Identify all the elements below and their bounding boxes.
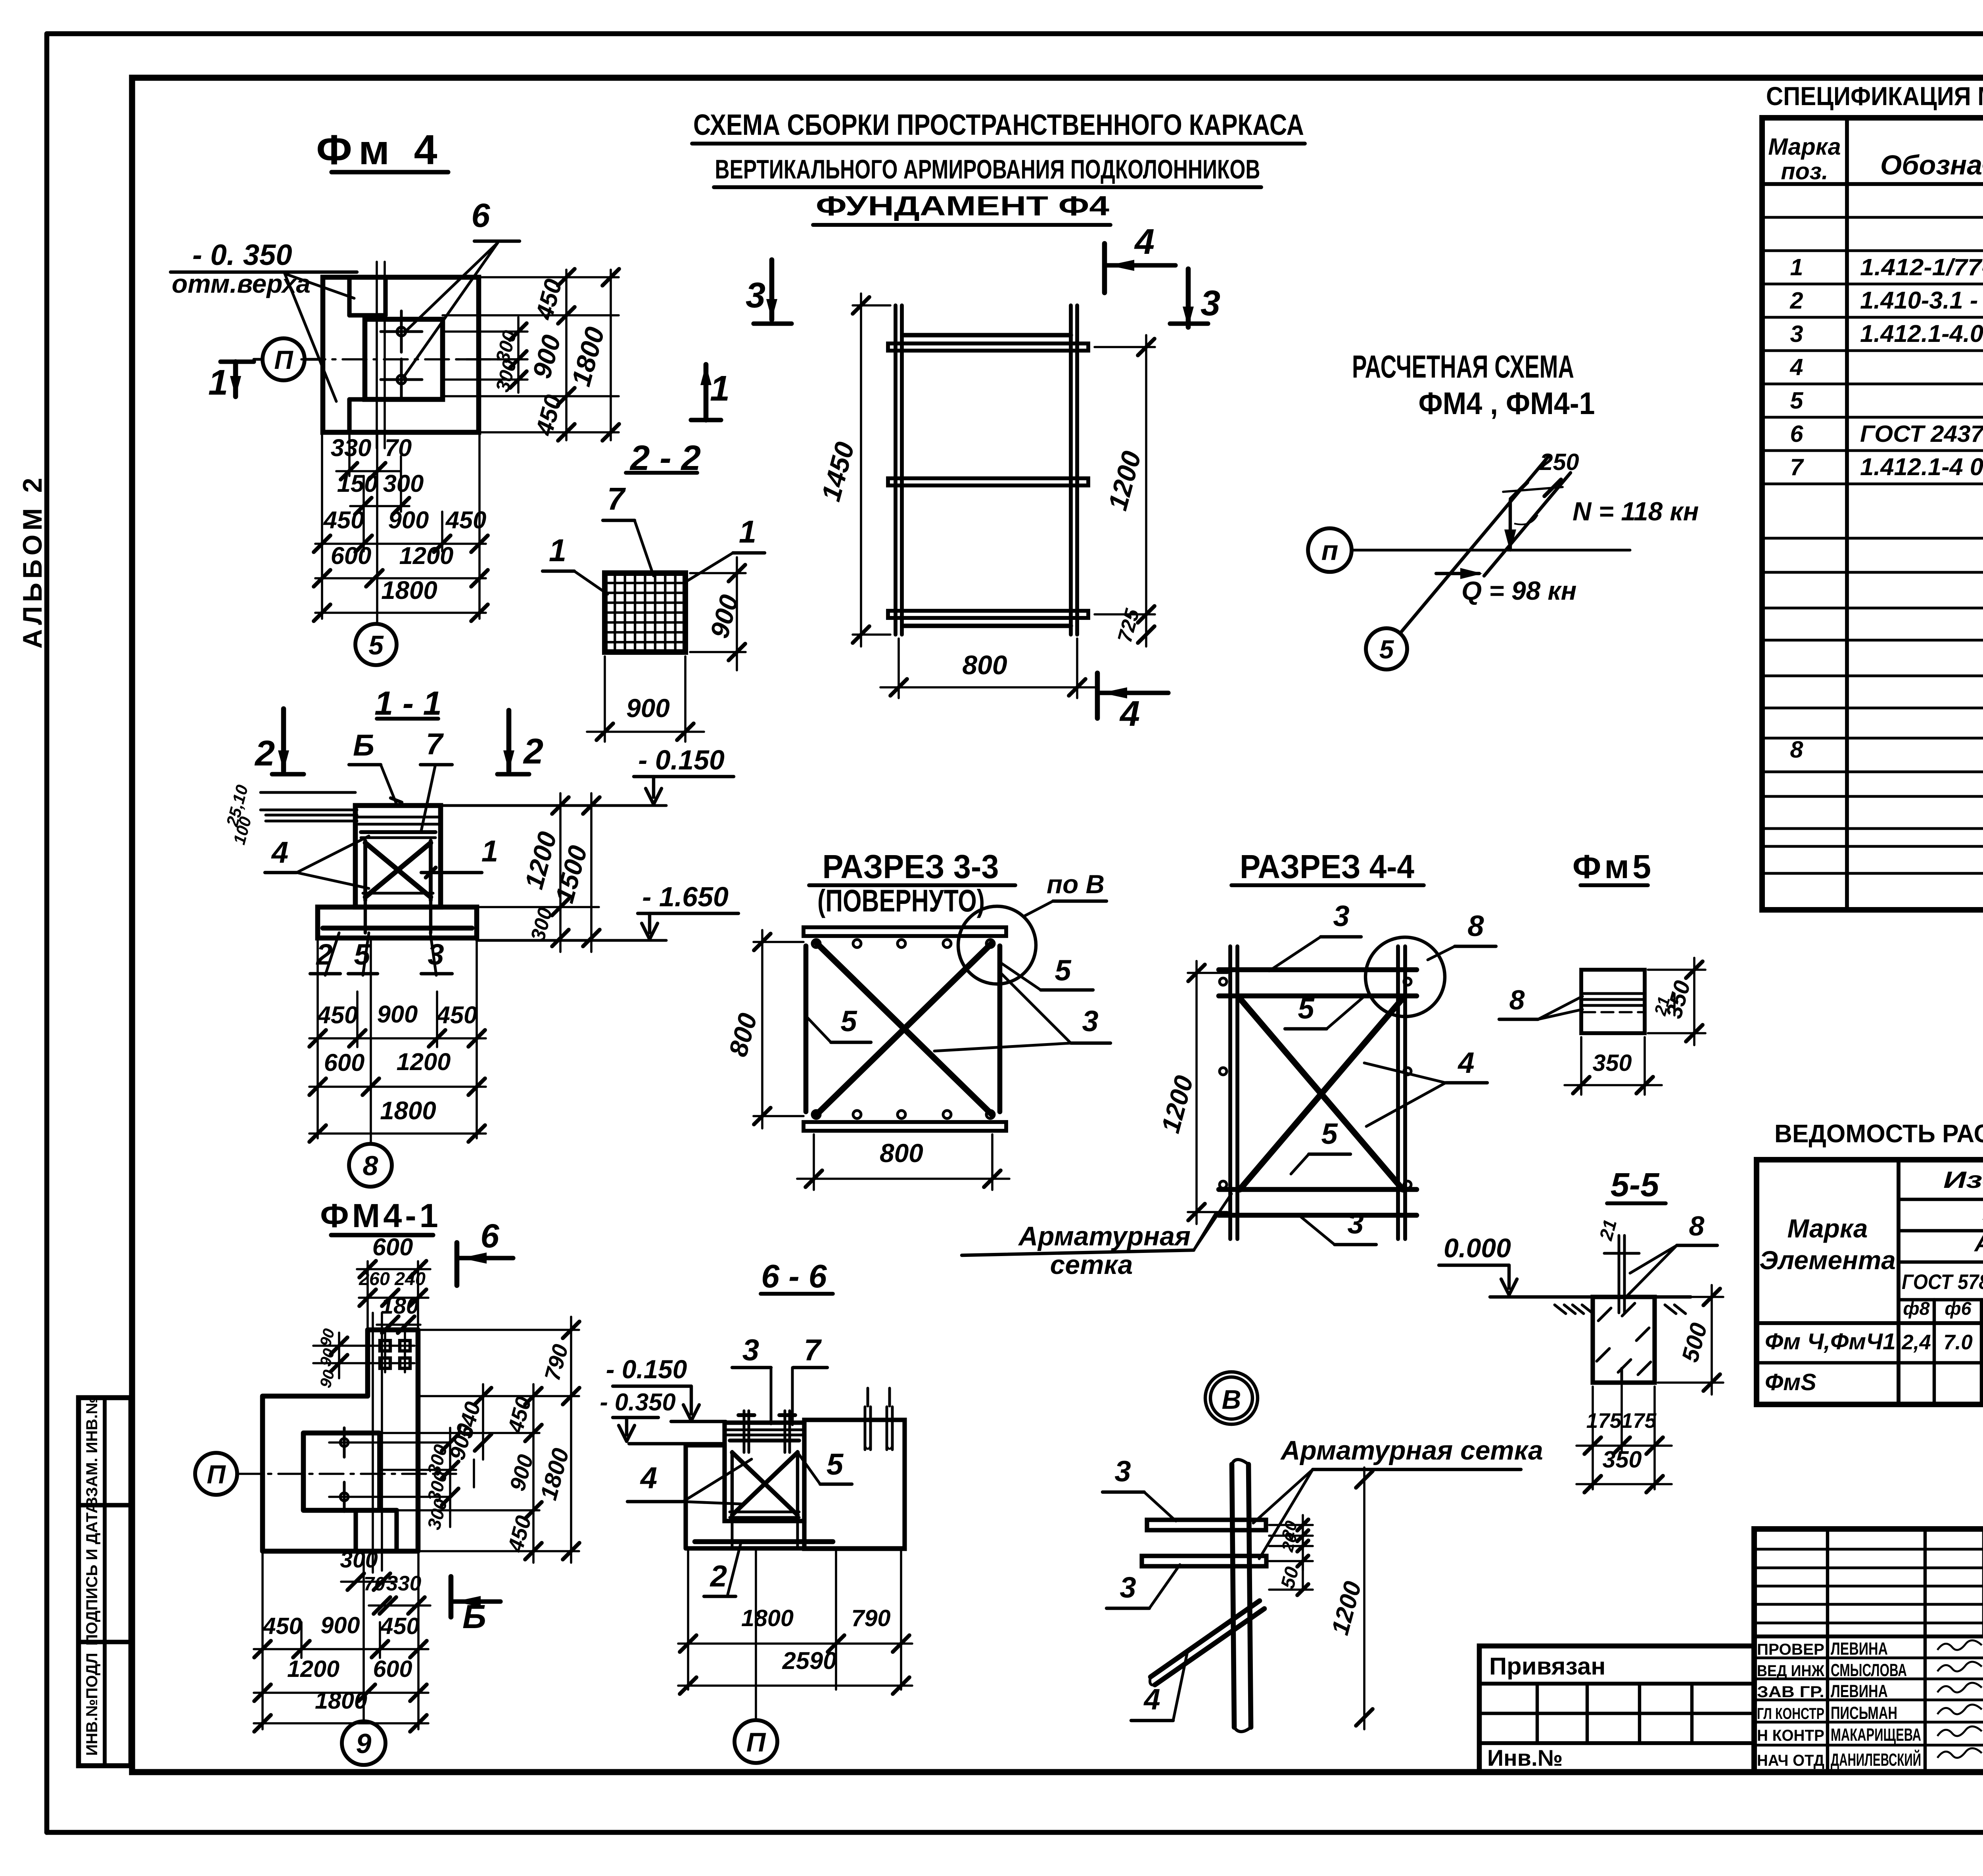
svg-text:РАЗРЕЗ 3-3: РАЗРЕЗ 3-3 (823, 848, 999, 885)
svg-text:П: П (746, 1728, 766, 1757)
FM4 dim chain 450-900-450 right (527, 269, 575, 441)
spec row 3 (1790, 316, 1983, 347)
svg-text:Марка: Марка (1768, 133, 1841, 160)
4-4 rungs (1219, 970, 1417, 1215)
svg-text:4: 4 (271, 836, 288, 869)
6-6 pedestal cross brace (730, 1452, 799, 1517)
design scheme title (1352, 349, 1595, 421)
section marker 4 bottom (1097, 673, 1168, 734)
FM4-1 inner recess (303, 1433, 397, 1551)
svg-text:3: 3 (1201, 283, 1220, 323)
svg-text:Фм5: Фм5 (1573, 848, 1654, 885)
design scheme circle 5 (1366, 628, 1407, 669)
svg-text:(ПОВЕРНУТО): (ПОВЕРНУТО) (817, 883, 985, 918)
title block signatures scribbles (1937, 1640, 1982, 1758)
1-1 labels 2 5 3 below footing (310, 933, 452, 975)
detail B dim 1200 (1326, 1467, 1373, 1729)
leader 8 at 5-5 (1626, 1210, 1717, 1297)
svg-text:3: 3 (1120, 1571, 1136, 1604)
6-6 rebar hooks right block (865, 1388, 892, 1450)
svg-text:ЗАВ ГР.: ЗАВ ГР. (1757, 1683, 1824, 1701)
svg-text:70: 70 (364, 1573, 385, 1595)
svg-text:- 1.650: - 1.650 (642, 881, 729, 912)
svg-text:СХЕМА СБОРКИ ПРОСТРАНСТВЕННОГО: СХЕМА СБОРКИ ПРОСТРАНСТВЕННОГО КАРКАСА (693, 108, 1304, 141)
svg-text:по В: по В (1047, 870, 1105, 899)
svg-text:РАСЧЕТНАЯ СХЕМА: РАСЧЕТНАЯ СХЕМА (1352, 349, 1574, 385)
svg-text:1.412.1-4.080: 1.412.1-4.080 (1860, 320, 1983, 347)
ladder top rung (888, 335, 1088, 351)
svg-text:8: 8 (1509, 984, 1525, 1015)
svg-text:МАКАРИЩЕВА: МАКАРИЩЕВА (1831, 1725, 1921, 1745)
svg-text:2,4: 2,4 (1901, 1331, 1931, 1354)
section 2-2 title (626, 438, 701, 478)
svg-text:450: 450 (262, 1613, 302, 1639)
svg-text:4: 4 (1134, 222, 1155, 262)
svg-text:АЛЬБОМ 2: АЛЬБОМ 2 (18, 474, 48, 649)
svg-text:900: 900 (626, 694, 670, 723)
svg-text:300: 300 (383, 470, 424, 497)
leader B to pedestal 1-1 (349, 729, 402, 804)
svg-text:450: 450 (323, 506, 364, 534)
svg-text:900: 900 (388, 506, 429, 534)
svg-text:ЛЕВИНА: ЛЕВИНА (1831, 1682, 1888, 1701)
svg-text:5: 5 (1298, 992, 1315, 1025)
section marker 2 left (254, 709, 304, 774)
svg-text:900: 900 (377, 1001, 418, 1028)
1-1 pedestal outline (355, 806, 441, 907)
FM4-1 dim 1200 600 (254, 1655, 428, 1701)
steel table headers (1759, 1159, 1983, 1324)
leader 8 top right 4-4 (1428, 909, 1496, 960)
svg-text:ВЕД ИНЖ: ВЕД ИНЖ (1757, 1662, 1825, 1680)
1-1 dim 1200 300 right (441, 793, 599, 952)
FM4-1 dim 180 (377, 1293, 420, 1333)
spec row 2 (1789, 283, 1983, 314)
svg-text:Арматурная сетка: Арматурная сетка (1280, 1436, 1543, 1466)
detail bubble poV (958, 870, 1107, 984)
svg-text:1800: 1800 (741, 1605, 794, 1631)
1-1 dim 600 1200 (309, 1048, 486, 1095)
ladder dim 1450 left (816, 293, 890, 646)
FM4 anchor bolt top (381, 311, 422, 352)
6-6 rebar dowels in pedestal (738, 1411, 795, 1452)
svg-text:1: 1 (739, 514, 756, 549)
FM4-1 dim 260 240 (359, 1268, 428, 1306)
svg-text:4: 4 (1119, 694, 1140, 734)
design scheme force Q arrow (1436, 568, 1576, 605)
3-3 side bars (806, 946, 1000, 1112)
1-1 left shelf lines (222, 783, 357, 847)
spec table title (1766, 82, 1983, 111)
svg-text:п: п (1321, 535, 1339, 566)
leader 4 right 4-4 (1364, 1046, 1487, 1126)
svg-text:8: 8 (1467, 909, 1484, 942)
svg-text:Q = 98 кн: Q = 98 кн (1461, 576, 1576, 605)
4-4 dim 1200 left (1156, 961, 1227, 1224)
svg-text:ВЕДОМОСТЬ РАСХОДА СТАЛИ НА ОДИ: ВЕДОМОСТЬ РАСХОДА СТАЛИ НА ОДИН ЭЛЕМЕНТ,… (1774, 1120, 1983, 1148)
svg-text:ДАНИЛЕВСКИЙ: ДАНИЛЕВСКИЙ (1831, 1749, 1921, 1770)
leader 1 right mesh (684, 514, 765, 583)
FM4-1 axis lines (237, 1313, 456, 1721)
svg-text:3: 3 (1333, 900, 1349, 932)
FM4-1 dim 450 900 450 right (503, 1384, 542, 1563)
level label -0.350 otm verha (171, 238, 357, 401)
5-5 dims 175 175 350 (1576, 1383, 1672, 1492)
svg-text:П: П (274, 345, 293, 374)
svg-text:4: 4 (640, 1461, 657, 1495)
svg-text:РАЗРЕЗ 4-4: РАЗРЕЗ 4-4 (1240, 848, 1414, 885)
design scheme axis circle p (1308, 528, 1352, 572)
svg-text:600: 600 (372, 1233, 413, 1261)
FM4 plan title (316, 127, 448, 173)
svg-text:3: 3 (1790, 320, 1803, 347)
3-3 dim 800 bottom (797, 1134, 1009, 1190)
detail B horizontal bar 1 (1147, 1520, 1266, 1530)
spec row 8 ugolok (1790, 734, 1983, 771)
svg-text:- 0. 350: - 0. 350 (192, 238, 292, 271)
FM4-1 anchor plates (369, 1331, 414, 1372)
leader 3 top 4-4 (1269, 900, 1361, 971)
leader 3 upper detail B (1103, 1455, 1176, 1521)
svg-text:260: 260 (359, 1268, 390, 1289)
leader 7 to mesh (603, 481, 654, 576)
ladder bottom rung (888, 611, 1088, 626)
left margin stamp boxes (79, 1396, 131, 1766)
svg-text:8: 8 (363, 1150, 378, 1181)
detail B horizontal bar 2 (1142, 1556, 1266, 1566)
svg-text:7: 7 (804, 1333, 822, 1367)
svg-text:1200: 1200 (399, 542, 454, 570)
svg-text:600: 600 (324, 1049, 365, 1076)
svg-text:1200: 1200 (287, 1655, 339, 1682)
svg-text:600: 600 (373, 1655, 412, 1682)
svg-text:4: 4 (1789, 354, 1803, 380)
svg-text:5: 5 (1790, 387, 1803, 414)
svg-text:6: 6 (471, 196, 490, 234)
svg-text:350: 350 (1592, 1049, 1632, 1076)
svg-text:240: 240 (394, 1268, 426, 1289)
svg-text:6: 6 (480, 1217, 499, 1255)
svg-text:450: 450 (436, 1001, 478, 1029)
svg-text:поз.: поз. (1781, 158, 1828, 184)
svg-text:1800: 1800 (381, 576, 437, 604)
leader 5 lower 4-4 (1291, 1117, 1350, 1174)
svg-text:5: 5 (1055, 954, 1072, 987)
svg-text:ГОСТ 5781- 82: ГОСТ 5781- 82 (1902, 1270, 1983, 1294)
FM4 anchor bolt bottom (381, 359, 422, 400)
leader 1 left mesh (543, 533, 608, 594)
section marker 6 top (457, 1217, 513, 1285)
svg-text:4: 4 (1457, 1046, 1474, 1079)
detail B vertical bar (1232, 1460, 1251, 1732)
level -0.150 at 6-6 (606, 1355, 699, 1421)
FM4 dim 330 70 (331, 434, 412, 480)
axis circle 8 below 1-1 (349, 1144, 392, 1187)
svg-text:ВЕРТИКАЛЬНОГО АРМИРОВАНИЯ ПОДК: ВЕРТИКАЛЬНОГО АРМИРОВАНИЯ ПОДКОЛОННИКОВ (715, 155, 1260, 184)
leader 7 to pedestal 1-1 (420, 727, 452, 831)
svg-text:ПРОВЕР: ПРОВЕР (1757, 1640, 1824, 1658)
detail B dims 20 20 50 (1269, 1515, 1313, 1595)
svg-text:ПОДПИСЬ И ДАТА: ПОДПИСЬ И ДАТА (83, 1502, 101, 1646)
5-5 column (1593, 1297, 1655, 1383)
leader 6 to bolts (404, 196, 520, 377)
FM4-1 dim 1800 bottom (254, 1687, 428, 1732)
design scheme pile diagonal (1400, 456, 1571, 633)
FM4-1 right extension lines (379, 1330, 579, 1551)
svg-text:1: 1 (549, 533, 566, 568)
svg-text:В: В (1222, 1385, 1241, 1415)
svg-text:350: 350 (1602, 1446, 1642, 1473)
spec row 6 (1790, 420, 1983, 447)
FM4-1 plan outline (263, 1330, 418, 1551)
FM4 dim 150 300 (337, 470, 424, 514)
svg-text:3: 3 (1347, 1207, 1364, 1240)
svg-text:330: 330 (386, 1572, 421, 1595)
svg-text:Б: Б (353, 729, 374, 762)
leader 5 left 3-3 (807, 1005, 871, 1042)
svg-text:790: 790 (851, 1605, 890, 1631)
razrez 4-4 title (1231, 848, 1424, 885)
section 2-2 mesh square (605, 573, 685, 652)
svg-text:- 0.150: - 0.150 (606, 1355, 687, 1384)
svg-text:ИНВ.№ПОДЛ: ИНВ.№ПОДЛ (83, 1653, 101, 1756)
leader 7 top 6-6 (792, 1333, 827, 1425)
svg-text:2: 2 (710, 1559, 727, 1593)
ladder dim 800 bottom (880, 639, 1095, 698)
level -0.350 at 6-6 (600, 1389, 675, 1441)
steel table title (1774, 1120, 1983, 1148)
svg-text:ФМ4 , ФМ4-1: ФМ4 , ФМ4-1 (1419, 386, 1595, 421)
section marker 1 right (691, 364, 730, 420)
level -1.650 at 1-1 (477, 881, 738, 940)
svg-text:ПИСЬМАН: ПИСЬМАН (1831, 1703, 1897, 1723)
svg-text:1.412-1/77-8.3-100: 1.412-1/77-8.3-100 (1860, 254, 1983, 280)
svg-text:Привязан: Привязан (1489, 1653, 1605, 1680)
FM4-1 bolts (329, 1428, 448, 1512)
section 1-1 title (374, 684, 442, 722)
spec row 1 (1790, 254, 1983, 280)
svg-text:N = 118 кн: N = 118 кн (1573, 497, 1699, 526)
FM4 plan axis lines (301, 262, 520, 448)
svg-text:- 0.350: - 0.350 (600, 1389, 675, 1416)
svg-text:ФМ4-1: ФМ4-1 (320, 1197, 441, 1234)
svg-text:4: 4 (1143, 1683, 1160, 1716)
section 5-5 title (1607, 1166, 1666, 1203)
FM4-1 dim 790 1800 (535, 1317, 579, 1563)
leader 3 top 6-6 (732, 1333, 771, 1424)
svg-text:250: 250 (1539, 449, 1579, 475)
5-5 dim 500 right (1658, 1285, 1723, 1395)
svg-text:450: 450 (445, 506, 487, 534)
svg-text:1800: 1800 (315, 1687, 367, 1714)
armature mesh label detail B (1253, 1436, 1543, 1559)
svg-text:5: 5 (368, 631, 384, 660)
svg-text:- 0.150: - 0.150 (638, 744, 725, 775)
ladder right bar (1071, 305, 1077, 635)
svg-text:7: 7 (1790, 454, 1804, 480)
FM4-1 bottom dims (340, 1547, 430, 1614)
FM4-1 plan title (320, 1197, 441, 1235)
FM5 detail rect (1581, 970, 1645, 1033)
FM4 dim 1800 bottom (314, 576, 488, 621)
axis circle 5 below FM4 (355, 624, 397, 665)
FM4 dim chain 300-300 right (492, 317, 527, 394)
spec row 7 (1790, 453, 1983, 481)
section marker B bottom (451, 1577, 501, 1635)
1-1 dim 1800 (309, 1097, 486, 1142)
section 6-6 title (761, 1258, 833, 1295)
svg-text:П: П (207, 1460, 226, 1489)
4-4 side bars (1230, 946, 1405, 1239)
detail B diagonal bar (1150, 1601, 1264, 1685)
title block signature rows (1754, 1636, 1983, 1772)
svg-text:Обозначение: Обозначение (1880, 150, 1983, 180)
FM4-1 dim chain 300 300 300 (423, 1428, 458, 1532)
svg-text:2: 2 (254, 733, 275, 773)
svg-text:ВЗАМ. ИНВ.№: ВЗАМ. ИНВ.№ (83, 1396, 101, 1508)
section marker 3 top-left of ladder (746, 260, 792, 324)
leader 3 right 3-3 (934, 972, 1110, 1051)
steel table data row 1 (1765, 1329, 1983, 1354)
4-4 cross diagonals (1240, 998, 1403, 1189)
FM4-1 dims 90 left (313, 1327, 373, 1390)
svg-text:5-5: 5-5 (1611, 1166, 1660, 1203)
svg-text:Н КОНТР: Н КОНТР (1757, 1726, 1824, 1744)
svg-text:Арматурная: Арматурная (1018, 1222, 1191, 1251)
svg-text:1 - 1: 1 - 1 (374, 684, 442, 722)
svg-text:1200: 1200 (397, 1048, 451, 1076)
svg-text:150: 150 (337, 470, 378, 497)
FM4 right extension lines (443, 277, 619, 432)
svg-text:ГОСТ 24379.1- 80: ГОСТ 24379.1- 80 (1860, 420, 1983, 447)
svg-text:ФмS: ФмS (1765, 1369, 1816, 1395)
left margin label Album 2 (18, 474, 48, 649)
svg-text:800: 800 (880, 1139, 923, 1168)
FM5 dim 350 right (1648, 958, 1705, 1045)
leader 5 right 3-3 (1001, 954, 1093, 990)
4-4 detail bubble (1365, 937, 1445, 1017)
2-2 dim 900 right (690, 557, 746, 670)
svg-text:7.0: 7.0 (1943, 1331, 1973, 1354)
level 0.000 at 5-5 (1439, 1233, 1517, 1295)
svg-text:1: 1 (710, 368, 730, 409)
svg-text:1800: 1800 (380, 1097, 436, 1125)
FM4 dim 450 900 450 (314, 506, 488, 552)
svg-text:Марка: Марка (1787, 1214, 1868, 1243)
svg-text:330: 330 (331, 434, 372, 462)
svg-text:ГЛ КОНСТР: ГЛ КОНСТР (1757, 1705, 1824, 1723)
svg-text:1: 1 (481, 834, 498, 868)
ladder middle rung (888, 478, 1088, 485)
FM4 plan outline (323, 277, 479, 432)
design scheme force N arrow (1504, 497, 1699, 552)
svg-text:ФУНДАМЕНТ Ф4: ФУНДАМЕНТ Ф4 (816, 190, 1109, 221)
1-1 pedestal cross brace (363, 841, 433, 900)
3-3 bottom plate (804, 1122, 1006, 1131)
svg-text:Фм Ч,ФмЧ1: Фм Ч,ФмЧ1 (1765, 1329, 1896, 1354)
title block revision rows (1754, 1529, 1983, 1772)
svg-text:8: 8 (1790, 736, 1803, 763)
svg-text:6: 6 (1790, 420, 1803, 447)
armature mesh label 4-4 (962, 1194, 1231, 1280)
svg-text:6 - 6: 6 - 6 (761, 1258, 827, 1295)
FM4 dim 1800 right (566, 269, 619, 441)
leader 1 right 1-1 (421, 834, 498, 878)
svg-text:70: 70 (385, 434, 412, 462)
1-1 footing outline (318, 900, 477, 938)
FM4 dim 600 1200 (314, 542, 488, 587)
svg-text:175: 175 (1586, 1409, 1622, 1433)
3-3 dim 800 left (723, 930, 804, 1128)
svg-text:ф8: ф8 (1903, 1298, 1929, 1319)
leader 4 at 6-6 (627, 1459, 752, 1504)
svg-text:3: 3 (1114, 1455, 1131, 1488)
svg-text:ф6: ф6 (1945, 1298, 1971, 1319)
razrez 3-3 title (809, 848, 1015, 918)
leader 3 bottom 4-4 (1301, 1207, 1376, 1245)
6-6 ground lines (629, 1421, 726, 1444)
svg-text:7: 7 (607, 481, 626, 516)
svg-text:Инв.№: Инв.№ (1487, 1746, 1563, 1771)
5-5 ground line (1490, 1297, 1691, 1314)
FM5 detail title (1573, 848, 1654, 885)
privyazan box (1479, 1646, 1754, 1772)
svg-text:СМЫСЛОВА: СМЫСЛОВА (1831, 1661, 1907, 1680)
svg-text:СПЕЦИФИКАЦИЯ МОНОЛИТНЫХ ФУНДАМ: СПЕЦИФИКАЦИЯ МОНОЛИТНЫХ ФУНДАМЕНТОВ ФМ4,… (1766, 82, 1983, 111)
3-3 top plate (804, 927, 1006, 936)
main title line 3 (813, 190, 1110, 225)
steel table grid (1757, 1160, 1983, 1404)
6-6 right block (804, 1420, 905, 1549)
svg-text:1: 1 (208, 363, 228, 403)
section marker 3 top-right of ladder (1170, 269, 1220, 327)
svg-text:175: 175 (1621, 1409, 1657, 1433)
svg-text:800: 800 (962, 650, 1007, 680)
leader 8 FM5 (1499, 984, 1582, 1019)
leader 3 lower detail B (1107, 1565, 1180, 1608)
steel table data row 2 (1765, 1369, 1983, 1395)
svg-text:450: 450 (316, 1001, 358, 1029)
FM4-1 dim 540 900 (445, 1384, 491, 1487)
leader 2 at 6-6 (704, 1543, 741, 1596)
svg-text:7: 7 (426, 727, 444, 761)
svg-text:900: 900 (320, 1612, 360, 1638)
6-6 bottom dims (678, 1548, 912, 1694)
spec table grid (1762, 118, 1983, 910)
svg-text:Элемента: Элемента (1759, 1246, 1896, 1275)
svg-text:ЛЕВИНА: ЛЕВИНА (1831, 1639, 1888, 1659)
svg-text:НАЧ ОТД: НАЧ ОТД (1757, 1751, 1824, 1769)
leader 5 at 6-6 (798, 1448, 852, 1484)
section marker 1 left (208, 362, 254, 403)
svg-text:5: 5 (1321, 1117, 1338, 1150)
1-1 dim 450 900 450 (309, 1001, 486, 1047)
svg-text:Фм 4: Фм 4 (316, 127, 443, 173)
leader 4 to cross 1-1 (265, 836, 369, 888)
level -0.150 at 1-1 (441, 744, 734, 806)
svg-text:3: 3 (1082, 1005, 1098, 1038)
svg-text:2: 2 (1789, 287, 1803, 314)
svg-text:1.410-3.1 - 12: 1.410-3.1 - 12 (1860, 287, 1983, 314)
section marker 2 right (497, 710, 543, 774)
ladder dim 1200 725 right (1095, 335, 1155, 646)
svg-text:450: 450 (380, 1613, 419, 1639)
spec table header text (1768, 133, 1983, 186)
1-1 dim 1500 right (550, 793, 600, 952)
svg-text:1.412.1-4 050: 1.412.1-4 050 (1860, 453, 1983, 481)
svg-text:600: 600 (331, 542, 372, 570)
axis circle P below 6-6 (735, 1548, 777, 1763)
